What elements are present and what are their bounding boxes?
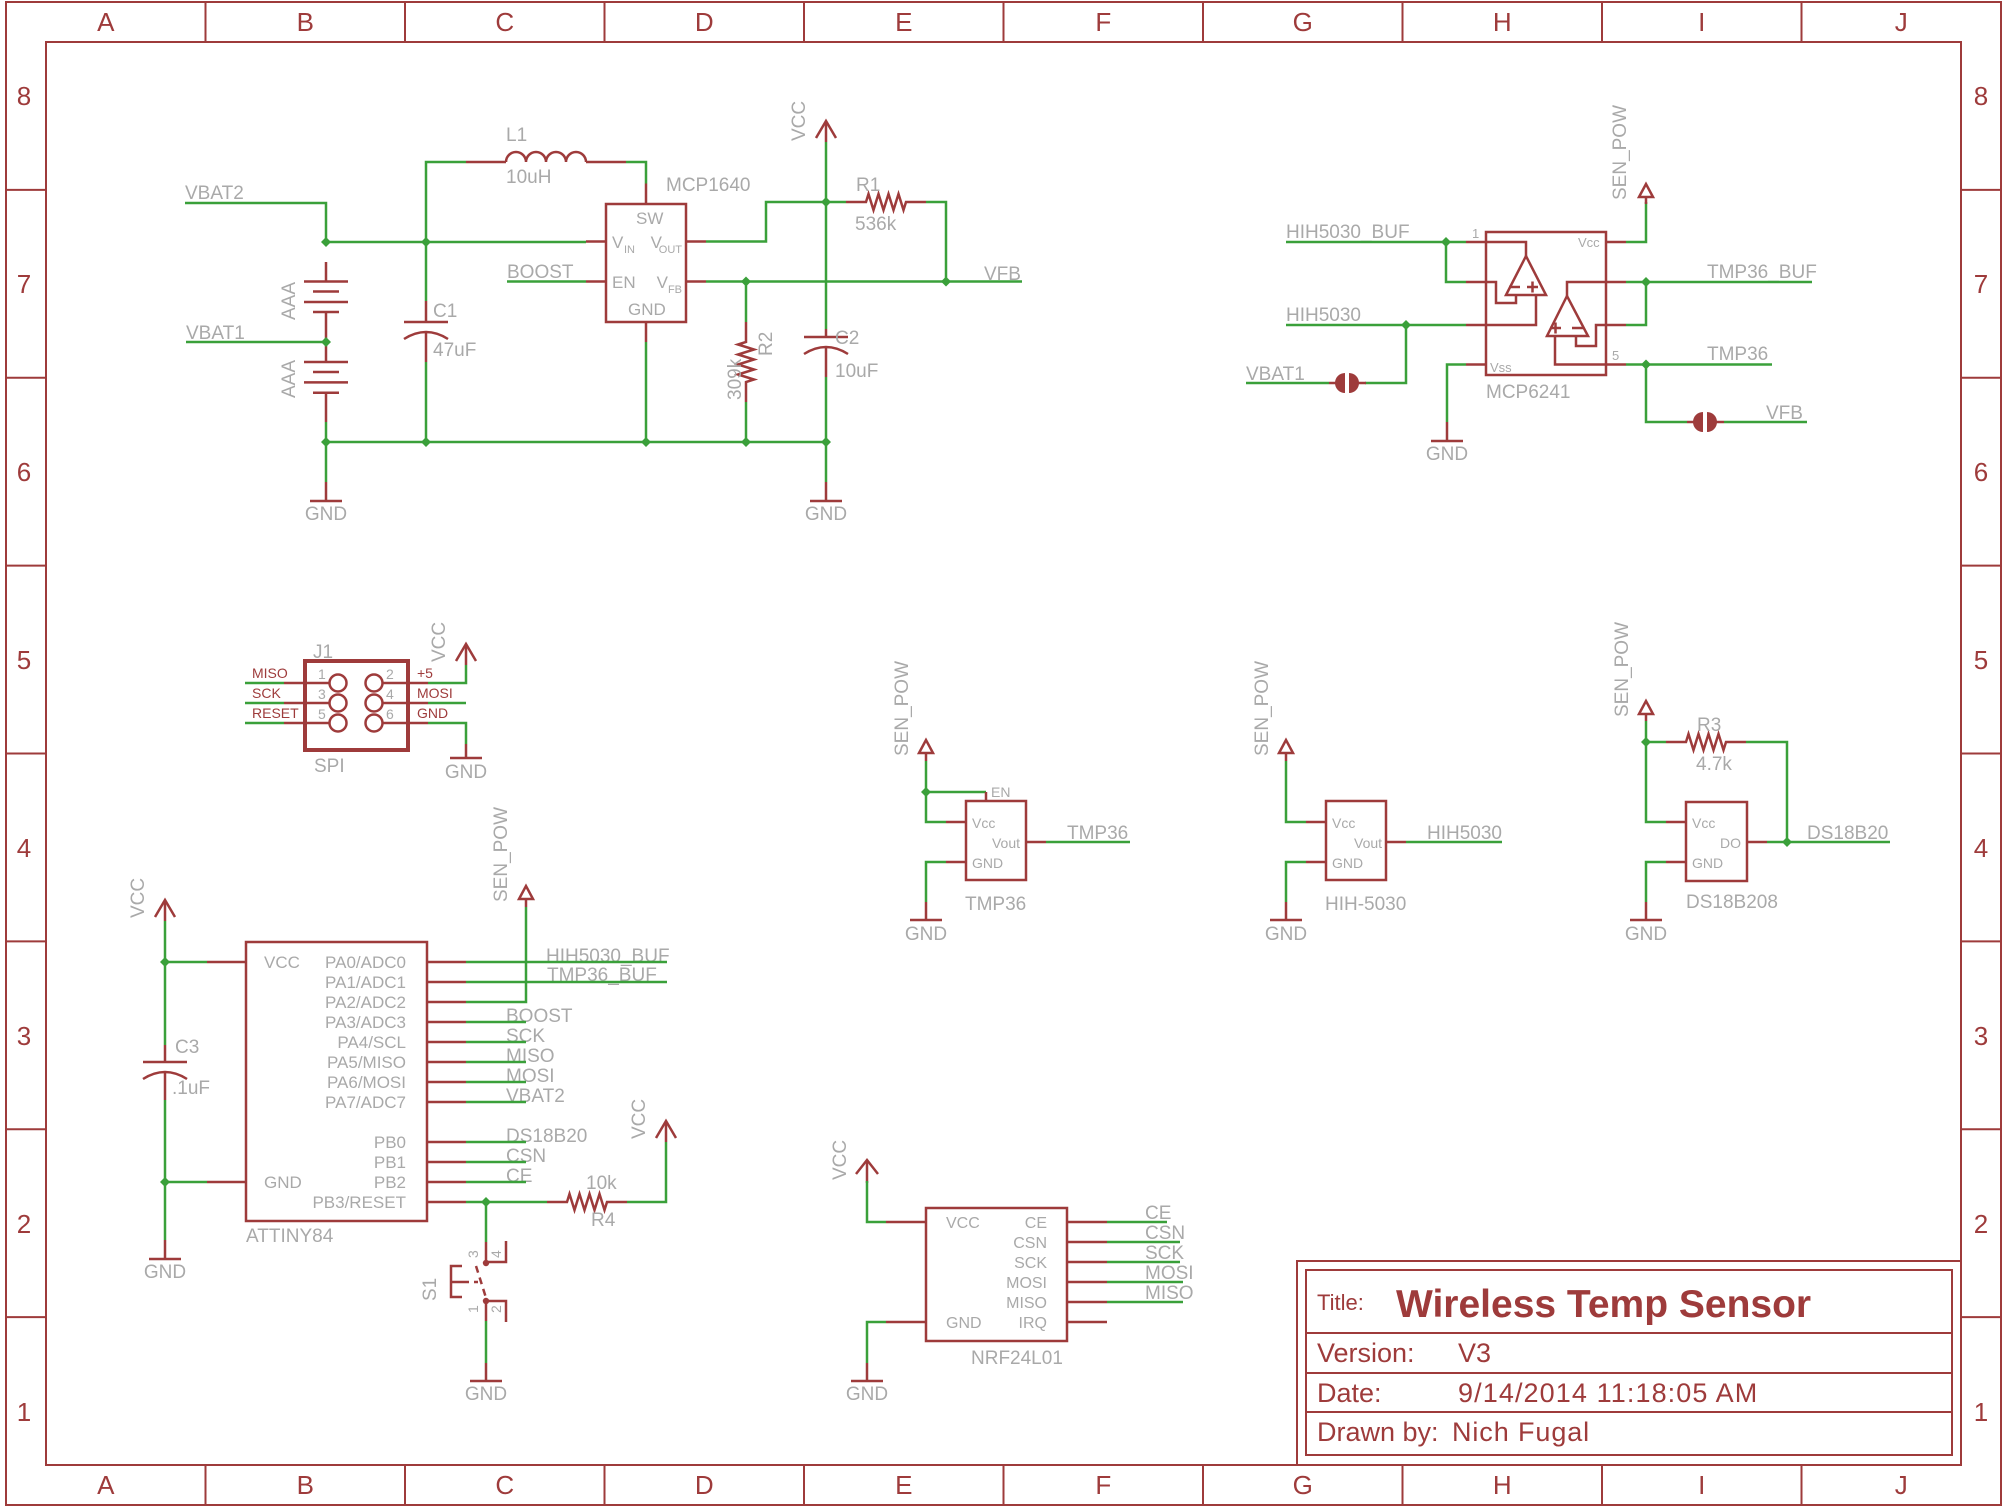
svg-text:309k: 309k (725, 358, 746, 400)
svg-text:BOOST: BOOST (507, 262, 574, 283)
svg-text:SCK: SCK (1014, 1255, 1047, 1272)
svg-text:SCK: SCK (252, 685, 281, 701)
wire SEN_POW to Vcc (HIH) (1286, 761, 1306, 822)
wire PA3 BOOST (466, 1021, 526, 1024)
svg-text:VCC: VCC (429, 622, 450, 662)
svg-text:6: 6 (1974, 457, 1988, 487)
node GND bus junctions (321, 437, 831, 447)
wire VCC to NRF (867, 1181, 886, 1222)
wire HIH5030 down to VBAT1 jumper (1365, 325, 1406, 383)
svg-text:Vss: Vss (1490, 360, 1512, 375)
node C1 top junction (421, 237, 431, 247)
svg-text:GND: GND (946, 1315, 982, 1332)
wire VFB stub (1724, 421, 1807, 424)
net label VBAT2 (185, 183, 244, 204)
node HIH5030 junction (1401, 320, 1411, 330)
net label TMP36 (buffer) (1707, 344, 1768, 365)
svg-text:GND: GND (1265, 924, 1307, 945)
ground (TMP36) (905, 902, 947, 945)
wire down to ground (ATtiny) (164, 1182, 167, 1240)
pin VOUT (651, 233, 683, 256)
jumper ball VBAT1 (1329, 373, 1366, 393)
wire Vcc to SEN_POW (1626, 202, 1646, 242)
svg-text:GND: GND (144, 1262, 186, 1283)
wire switch to ground (485, 1321, 488, 1363)
wire PA5 MISO (466, 1061, 526, 1064)
svg-text:EN: EN (612, 273, 636, 292)
resistor R4 (547, 1142, 666, 1210)
wire PA1 TMP36_BUF (466, 981, 667, 984)
svg-text:10uF: 10uF (835, 361, 878, 382)
svg-text:10uH: 10uH (506, 167, 551, 188)
svg-text:R3: R3 (1697, 715, 1721, 736)
svg-text:D: D (695, 1470, 714, 1500)
svg-text:ATTINY84: ATTINY84 (246, 1226, 334, 1247)
node battery+ junction (321, 237, 331, 247)
svg-text:R1: R1 (856, 175, 880, 196)
svg-text:+5: +5 (417, 665, 433, 681)
svg-text:536k: 536k (855, 214, 897, 235)
svg-text:MOSI: MOSI (1006, 1275, 1047, 1292)
wire SEN_POW to Vcc (DS) (1646, 742, 1666, 822)
svg-text:Vcc: Vcc (972, 815, 995, 831)
svg-text:4.7k: 4.7k (1696, 754, 1732, 775)
svg-text:CSN: CSN (506, 1146, 546, 1167)
svg-text:PB2: PB2 (374, 1173, 406, 1192)
svg-text:S1: S1 (420, 1278, 441, 1301)
svg-text:PB3/RESET: PB3/RESET (312, 1193, 406, 1212)
svg-text:PA7/ADC7: PA7/ADC7 (325, 1093, 406, 1112)
svg-text:R4: R4 (591, 1210, 616, 1231)
wire EN (926, 791, 986, 794)
svg-text:SEN_POW: SEN_POW (1612, 622, 1633, 717)
svg-text:GND: GND (846, 1384, 888, 1405)
IC U3 ATTINY84 (207, 942, 466, 1221)
svg-text:MOSI: MOSI (417, 685, 453, 701)
svg-text:VCC: VCC (830, 1140, 851, 1180)
svg-text:CE: CE (506, 1166, 532, 1187)
net label VBAT1 (buffer input) (1246, 364, 1305, 385)
node VFB junctions (741, 277, 951, 287)
svg-text:Date:: Date: (1317, 1378, 1382, 1408)
wire TMP36 down to VFB jumper (1646, 365, 1687, 423)
svg-text:B: B (297, 7, 314, 37)
op-amp A inside U2 (1486, 242, 1546, 325)
ground (S1) (465, 1363, 507, 1405)
svg-text:I: I (1698, 1470, 1705, 1500)
sensor U6 DS18B208 (1666, 802, 1767, 881)
svg-text:BOOST: BOOST (506, 1006, 573, 1027)
net label HIH5030_BUF (1286, 222, 1410, 243)
wire BOOST to EN (507, 280, 586, 283)
svg-text:Nich Fugal: Nich Fugal (1452, 1417, 1590, 1447)
wire VBAT1 to jumper (1246, 382, 1329, 385)
node reset junction (481, 1197, 491, 1207)
node DO junction (1782, 837, 1792, 847)
svg-text:J: J (1895, 7, 1908, 37)
wire feedback amp1 (1446, 242, 1466, 282)
svg-text:GND: GND (1625, 924, 1667, 945)
svg-text:TMP36_BUF: TMP36_BUF (1707, 262, 1817, 283)
svg-text:SEN_POW: SEN_POW (892, 661, 913, 756)
wire TMP36 row (1626, 363, 1772, 366)
svg-text:4: 4 (1974, 833, 1988, 863)
svg-text:PA6/MOSI: PA6/MOSI (327, 1073, 406, 1092)
net label MISO (506, 1046, 555, 1067)
svg-text:V: V (651, 233, 663, 252)
pin VIN (612, 233, 635, 256)
net label CSN (NRF) (1145, 1223, 1185, 1244)
svg-text:SW: SW (636, 209, 663, 228)
svg-text:1: 1 (318, 666, 326, 682)
ground under C2 (805, 442, 847, 525)
net label CE (ATtiny) (506, 1166, 532, 1187)
power VCC (R4) (629, 1099, 676, 1142)
svg-text:C: C (495, 7, 514, 37)
wire PB2 CE (466, 1181, 526, 1184)
frame column letters bottom (97, 1470, 1908, 1500)
svg-text:7: 7 (17, 269, 31, 299)
wire PB0 DS18B20 (466, 1141, 526, 1144)
wire VBAT1 (186, 341, 326, 344)
net label MOSI (NRF) (1145, 1263, 1194, 1284)
svg-text:DS18B20: DS18B20 (506, 1126, 587, 1147)
svg-text:EN: EN (991, 784, 1010, 800)
wire VFB row (706, 280, 946, 283)
svg-text:Title:: Title: (1317, 1290, 1364, 1315)
svg-text:FB: FB (668, 284, 682, 296)
wire feedback amp2 (1626, 282, 1646, 325)
node pin1 junction (1441, 237, 1451, 247)
svg-text:4: 4 (488, 1250, 504, 1258)
svg-text:SEN_POW: SEN_POW (1252, 661, 1273, 756)
node TMP36_BUF junction (1641, 277, 1651, 287)
svg-text:MISO: MISO (1006, 1295, 1047, 1312)
svg-text:SPI: SPI (314, 756, 345, 777)
net label HIH5030_BUF (ATtiny) (546, 946, 670, 967)
wire SCK stub (245, 702, 284, 705)
net label VBAT2 (ATtiny) (506, 1086, 565, 1107)
svg-text:GND: GND (417, 705, 448, 721)
svg-text:PB0: PB0 (374, 1133, 406, 1152)
svg-text:F: F (1095, 1470, 1111, 1500)
net label BOOST (ATtiny) (506, 1006, 573, 1027)
battery BT1 (AAA pair) (304, 262, 348, 422)
svg-text:C2: C2 (835, 328, 859, 349)
svg-text:J1: J1 (313, 642, 333, 663)
svg-text:L1: L1 (506, 125, 527, 146)
svg-text:Vout: Vout (992, 835, 1020, 851)
power VCC (NRF) (830, 1140, 878, 1183)
net label TMP36 (1067, 823, 1128, 844)
wire reset down to switch (485, 1202, 488, 1242)
svg-text:GND: GND (264, 1173, 302, 1192)
svg-text:C3: C3 (175, 1037, 199, 1058)
wire PB1 CSN (466, 1161, 526, 1164)
svg-text:RESET: RESET (252, 705, 299, 721)
svg-text:4: 4 (17, 833, 31, 863)
svg-text:VCC: VCC (128, 878, 149, 918)
svg-text:GND: GND (1426, 444, 1468, 465)
net label BOOST (507, 262, 574, 283)
svg-text:HIH5030_BUF: HIH5030_BUF (546, 946, 670, 967)
wire SEN_POW to R3 junction (1645, 721, 1648, 742)
wire CSN (NRF) (1107, 1241, 1180, 1244)
frame row ticks right (1961, 190, 2001, 1317)
net label HIH5030 (1427, 823, 1502, 844)
power SEN_POW (DS18B20) (1612, 622, 1653, 721)
svg-text:1: 1 (1974, 1397, 1988, 1427)
svg-text:GND: GND (805, 504, 847, 525)
inductor L1 (426, 152, 646, 242)
svg-text:V: V (657, 273, 669, 292)
pin VFB (657, 273, 682, 296)
svg-text:A: A (97, 1470, 115, 1500)
svg-text:5: 5 (17, 645, 31, 675)
svg-text:GND: GND (305, 504, 347, 525)
frame row ticks left (6, 190, 46, 1317)
node TMP36 junction (1641, 360, 1651, 370)
svg-text:DS18B208: DS18B208 (1686, 892, 1778, 913)
wire CE (NRF) (1107, 1221, 1167, 1224)
frame column ticks top (206, 2, 1802, 42)
svg-text:G: G (1293, 7, 1313, 37)
svg-text:VBAT2: VBAT2 (185, 183, 244, 204)
svg-text:GND: GND (905, 924, 947, 945)
net label SCK (NRF) (1145, 1243, 1184, 1264)
wire TMP36_BUF (1626, 281, 1812, 284)
IC U1 MCP1640 (586, 184, 706, 343)
svg-text:AAA: AAA (279, 360, 300, 398)
svg-text:V: V (612, 233, 624, 252)
svg-text:8: 8 (1974, 81, 1988, 111)
svg-text:VBAT2: VBAT2 (506, 1086, 565, 1107)
svg-text:H: H (1493, 1470, 1512, 1500)
svg-text:OUT: OUT (659, 244, 683, 256)
IC U2 MCP6241 (1466, 232, 1626, 375)
svg-text:R2: R2 (756, 332, 777, 356)
wire GND (HIH) (1286, 862, 1306, 902)
wire VBAT2 to battery top (185, 203, 326, 242)
power SEN_POW (HIH) (1252, 661, 1293, 761)
svg-text:CE: CE (1025, 1215, 1047, 1232)
svg-text:HIH-5030: HIH-5030 (1325, 894, 1406, 915)
frame row numbers right (1974, 81, 1988, 1427)
svg-text:PA1/ADC1: PA1/ADC1 (325, 973, 406, 992)
capacitor C3 (143, 1045, 187, 1182)
frame row numbers left (17, 81, 31, 1427)
wire PA4 SCK (466, 1041, 526, 1044)
power SEN_POW (sensor rail at C5) (491, 807, 533, 907)
IC U7 NRF24L01 (886, 1208, 1107, 1341)
svg-text:5: 5 (318, 706, 326, 722)
svg-text:3: 3 (17, 1021, 31, 1051)
svg-text:SEN_POW: SEN_POW (1610, 105, 1631, 200)
wire HIH5030_BUF to pin1 (1286, 241, 1466, 244)
net label VBAT1 (186, 323, 245, 344)
wire SCK (NRF) (1107, 1261, 1180, 1264)
wire MCP1640 GND to bus (645, 342, 648, 442)
svg-text:CSN: CSN (1013, 1235, 1047, 1252)
wire GND (DS) (1646, 862, 1666, 902)
svg-text:.1uF: .1uF (172, 1078, 210, 1099)
svg-text:MCP6241: MCP6241 (1486, 382, 1571, 403)
svg-text:1: 1 (1472, 226, 1479, 241)
svg-text:VCC: VCC (789, 101, 810, 141)
power VCC (J1) (429, 622, 476, 665)
wire SEN_POW to EN junction (925, 761, 928, 792)
power SEN_POW (TMP36) (892, 661, 933, 761)
svg-text:9/14/2014 11:18:05 AM: 9/14/2014 11:18:05 AM (1458, 1378, 1758, 1408)
svg-text:Vcc: Vcc (1578, 235, 1600, 250)
svg-text:PB1: PB1 (374, 1153, 406, 1172)
wire Vout TMP36 (1046, 841, 1130, 844)
wire PB3/RESET to R4 (466, 1201, 547, 1204)
wire PA0 HIH5030_BUF (466, 961, 667, 964)
resistor R2 (738, 282, 754, 443)
svg-text:2: 2 (386, 666, 394, 682)
ground (NRF) (846, 1363, 888, 1405)
wire HIH5030 to +input (1286, 324, 1466, 327)
node VCC junction (821, 197, 831, 207)
ground (MCP6241) (1426, 422, 1468, 465)
svg-text:GND: GND (972, 855, 1003, 871)
svg-text:SCK: SCK (506, 1026, 545, 1047)
svg-text:1: 1 (465, 1305, 481, 1313)
svg-text:8: 8 (17, 81, 31, 111)
net label TMP36_BUF (1707, 262, 1817, 283)
net label VFB (984, 264, 1021, 285)
sensor U5 HIH-5030 (1306, 801, 1406, 880)
title block frame (1297, 1261, 1961, 1465)
svg-text:PA5/MISO: PA5/MISO (327, 1053, 406, 1072)
svg-text:3: 3 (318, 686, 326, 702)
net label CE (NRF) (1145, 1203, 1171, 1224)
svg-text:VCC: VCC (946, 1215, 980, 1232)
svg-text:HIH5030_BUF: HIH5030_BUF (1286, 222, 1410, 243)
wire DO to label (1767, 841, 1890, 844)
svg-text:V3: V3 (1458, 1338, 1491, 1368)
svg-text:VCC: VCC (264, 953, 300, 972)
wire VCC down to ATtiny VCC pin (165, 921, 207, 962)
net label HIH5030 (1286, 305, 1361, 326)
svg-text:Wireless Temp Sensor: Wireless Temp Sensor (1396, 1283, 1811, 1326)
wire PA6 MOSI (466, 1081, 526, 1084)
svg-text:SEN_POW: SEN_POW (491, 807, 512, 902)
ground under battery (305, 442, 347, 525)
svg-text:6: 6 (17, 457, 31, 487)
wire to Vcc pin (926, 792, 946, 822)
svg-text:VCC: VCC (629, 1099, 650, 1139)
wire GND (J1) (428, 723, 466, 744)
svg-text:IN: IN (624, 244, 635, 256)
svg-text:PA3/ADC3: PA3/ADC3 (325, 1013, 406, 1032)
svg-text:6: 6 (386, 706, 394, 722)
wire battery- to GND bus (325, 422, 328, 442)
svg-text:4: 4 (386, 686, 394, 702)
power SEN_POW (U2) (1610, 105, 1653, 204)
wire PA7 VBAT2 (466, 1101, 526, 1104)
svg-text:3: 3 (465, 1250, 481, 1258)
wire VFB label stub (946, 280, 1022, 283)
sensor U4 TMP36 (946, 792, 1046, 880)
node EN junction (921, 787, 931, 797)
svg-text:IRQ: IRQ (1019, 1315, 1047, 1332)
wire RESET stub (245, 722, 284, 725)
svg-text:DO: DO (1720, 835, 1741, 851)
wire Vout HIH5030 (1406, 841, 1502, 844)
svg-text:PA2/ADC2: PA2/ADC2 (325, 993, 406, 1012)
svg-text:I: I (1698, 7, 1705, 37)
svg-text:HIH5030: HIH5030 (1286, 305, 1361, 326)
svg-text:F: F (1095, 7, 1111, 37)
wire battery top bus to VIN (326, 241, 586, 244)
wire MOSI (NRF) (1107, 1281, 1183, 1284)
wire MISO stub (245, 682, 284, 685)
svg-text:H: H (1493, 7, 1512, 37)
svg-text:2: 2 (17, 1209, 31, 1239)
svg-text:PA4/SCL: PA4/SCL (337, 1033, 406, 1052)
svg-text:DS18B20: DS18B20 (1807, 823, 1888, 844)
wire GND bus (326, 441, 826, 444)
svg-text:TMP36: TMP36 (965, 894, 1026, 915)
svg-text:NRF24L01: NRF24L01 (971, 1348, 1063, 1369)
net label MISO (NRF) (1145, 1283, 1194, 1304)
capacitor C2 (804, 202, 848, 442)
svg-text:E: E (895, 1470, 912, 1500)
svg-text:1: 1 (17, 1397, 31, 1427)
capacitor C1 (404, 242, 448, 442)
svg-text:Vout: Vout (1354, 835, 1382, 851)
svg-text:7: 7 (1974, 269, 1988, 299)
svg-text:MISO: MISO (506, 1046, 555, 1067)
power VCC (ATtiny) (128, 878, 175, 921)
svg-text:Drawn by:: Drawn by: (1317, 1417, 1439, 1447)
svg-text:MISO: MISO (252, 665, 288, 681)
svg-text:MCP1640: MCP1640 (666, 175, 751, 196)
ground (HIH) (1265, 902, 1307, 945)
svg-text:GND: GND (628, 300, 666, 319)
switch S1 (451, 1241, 506, 1322)
wire +5 to VCC (428, 665, 466, 683)
wire MOSI stub (428, 702, 466, 705)
svg-text:PA0/ADC0: PA0/ADC0 (325, 953, 406, 972)
svg-text:C: C (495, 1470, 514, 1500)
ground (J1) (445, 744, 487, 783)
node ATtiny GND junction (160, 1177, 170, 1187)
svg-text:C1: C1 (433, 301, 457, 322)
svg-text:3: 3 (1974, 1021, 1988, 1051)
svg-text:GND: GND (445, 762, 487, 783)
svg-text:TMP36: TMP36 (1707, 344, 1768, 365)
wire VCC down to C3 (164, 962, 167, 1045)
wire GND (TMP36) (926, 862, 946, 902)
svg-text:MOSI: MOSI (506, 1066, 555, 1087)
svg-text:B: B (297, 1470, 314, 1500)
ground (ATtiny) (144, 1240, 186, 1283)
svg-text:5: 5 (1612, 348, 1619, 363)
node VBAT1 junction (321, 337, 331, 347)
wire GND (NRF) (867, 1322, 886, 1363)
svg-text:A: A (97, 7, 115, 37)
svg-text:J: J (1895, 1470, 1908, 1500)
svg-text:GND: GND (1692, 855, 1723, 871)
net label DS18B20 (1807, 823, 1888, 844)
net label DS18B20 (ATtiny) (506, 1126, 587, 1147)
svg-text:D: D (695, 7, 714, 37)
svg-text:47uF: 47uF (433, 340, 476, 361)
svg-text:5: 5 (1974, 645, 1988, 675)
